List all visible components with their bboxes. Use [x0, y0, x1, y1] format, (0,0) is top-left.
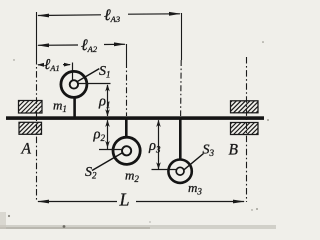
dimension L	[37, 200, 245, 204]
disc2 stem	[125, 120, 128, 139]
scan shadow bottom	[0, 225, 276, 229]
rho2 extension line	[99, 149, 122, 151]
right support lower block	[231, 123, 259, 135]
disc1 centerline	[72, 63, 74, 71]
dimension rho1	[105, 84, 110, 116]
dimension l_A2	[37, 42, 126, 47]
node A centerline (dash-dot at left support)	[36, 12, 38, 202]
rho3 extension line	[152, 169, 177, 171]
rho1 extension line	[78, 83, 110, 85]
disc3 stem	[179, 120, 182, 161]
disc1 stem	[73, 97, 76, 117]
svg-text:B: B	[229, 142, 239, 159]
disc 2 (m2,S2)	[92, 137, 140, 170]
dimension rho2	[105, 120, 110, 150]
dimension l_A1	[37, 63, 71, 67]
right support upper block	[231, 101, 259, 113]
left support upper block	[19, 101, 43, 114]
dimension rho3	[156, 120, 161, 170]
disc 3 (m3,S3)	[168, 154, 203, 183]
dimension l_A3	[37, 12, 181, 18]
left support lower block	[19, 122, 42, 134]
svg-text:A: A	[21, 141, 32, 158]
svg-text:L: L	[119, 190, 130, 210]
paper specks	[8, 41, 269, 222]
beam	[6, 116, 264, 120]
disc3 centerline	[180, 13, 183, 116]
disc2 centerline	[126, 44, 128, 116]
disc 1 (m1,S1)	[61, 69, 99, 98]
node B centerline (dash-dot at right support)	[246, 57, 248, 202]
